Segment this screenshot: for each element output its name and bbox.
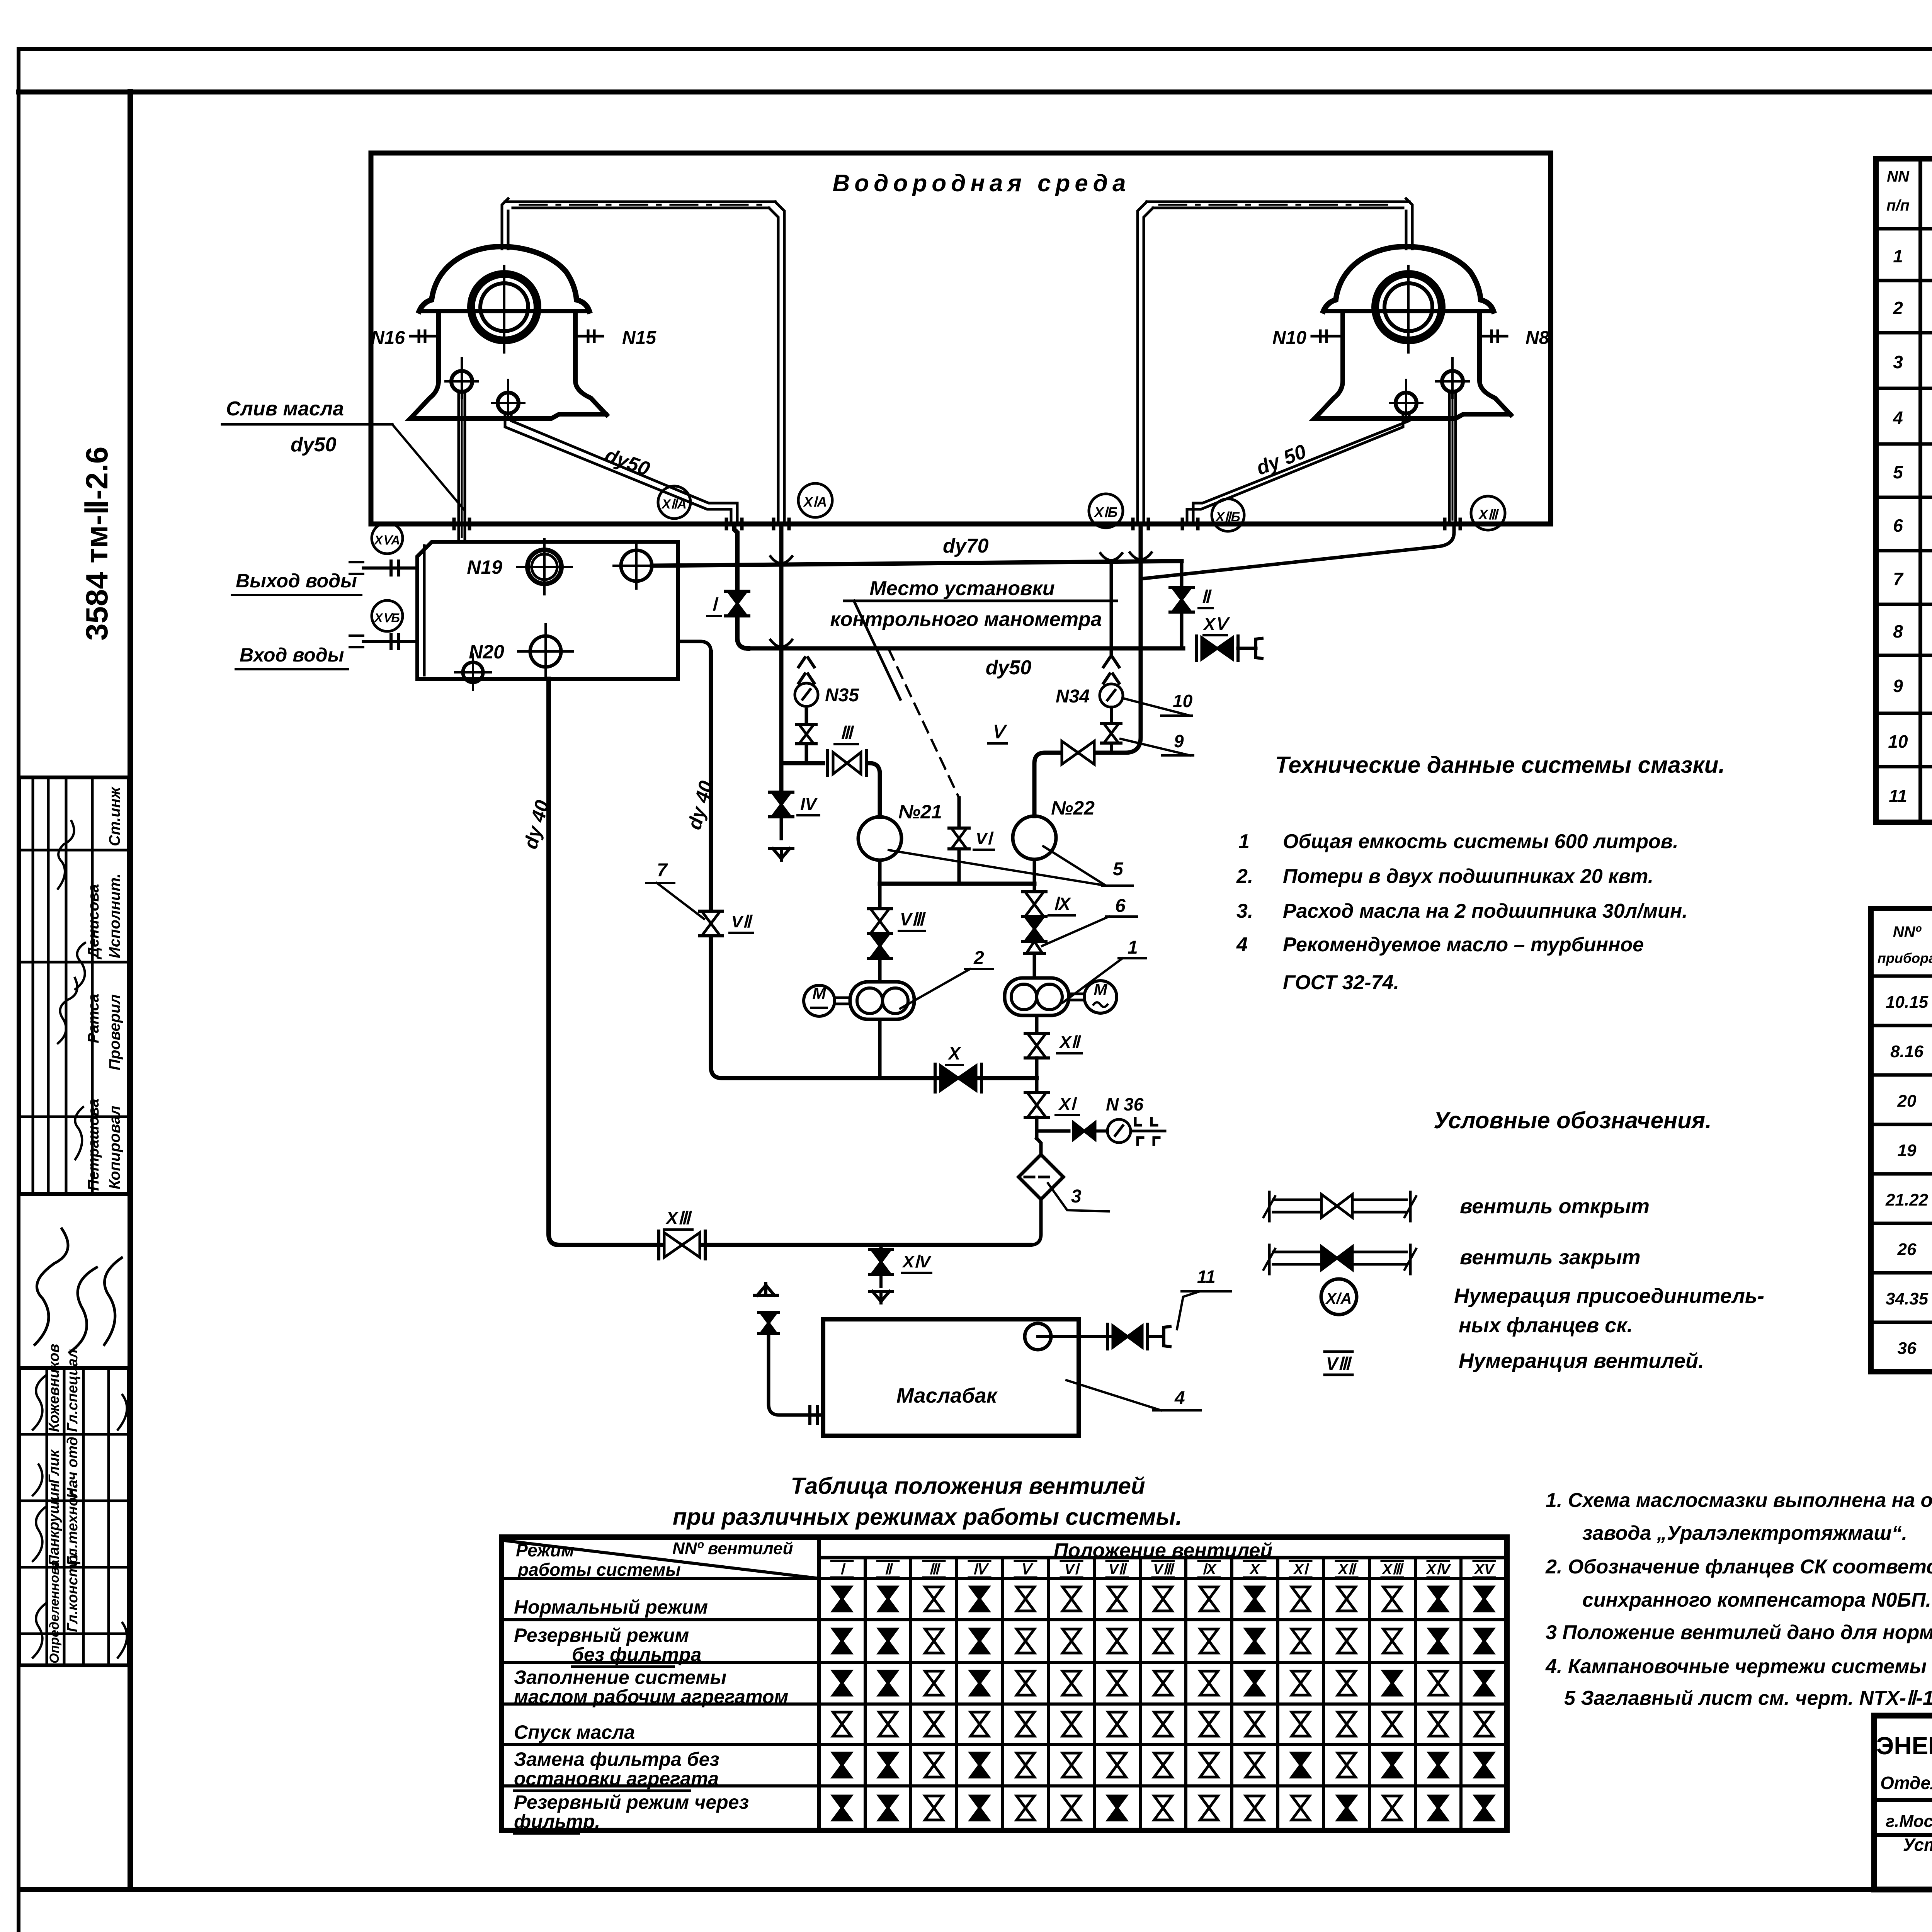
- pipe valve V line: [1034, 753, 1125, 816]
- oil tank: [823, 1319, 1079, 1436]
- leader to drain pipe: [392, 424, 464, 509]
- tee fillet dy70 at 2022: [770, 556, 792, 563]
- drawing frame bottom line: [23, 1887, 1932, 1892]
- small valve N36: [1073, 1122, 1095, 1139]
- legend closed valve symbol: [1268, 1245, 1271, 1274]
- svg-text:вентиль открыт: вентиль открыт: [1460, 1195, 1650, 1218]
- title block left rows: [1874, 1798, 1932, 1802]
- svg-text:11: 11: [1197, 1267, 1216, 1287]
- svg-text:Вход воды: Вход воды: [240, 644, 344, 666]
- svg-text:XⅢ: XⅢ: [1478, 507, 1499, 522]
- valve XI drop: [1035, 1078, 1039, 1094]
- drain fork XIV: [869, 1290, 893, 1293]
- tank outlet valve: [1113, 1326, 1142, 1347]
- svg-text:XⅠ: XⅠ: [1293, 1561, 1310, 1578]
- tee fillet dy70 at 2876: [1100, 553, 1122, 560]
- svg-text:1. Схема маслосмазки выполне: 1. Схема маслосмазки выполнена на основа…: [1546, 1489, 1932, 1512]
- svg-text:N10: N10: [1272, 328, 1306, 348]
- oil filter: [1019, 1155, 1063, 1199]
- svg-text:3: 3: [1893, 352, 1903, 372]
- svg-text:п/п: п/п: [1886, 197, 1910, 214]
- title block outer: [1874, 1716, 1932, 1889]
- svg-text:10: 10: [1888, 731, 1908, 752]
- svg-text:1: 1: [1893, 246, 1903, 266]
- svg-text:Нумерация присоединитель-: Нумерация присоединитель-: [1454, 1284, 1764, 1308]
- pipe bearing-R top: [1405, 211, 1408, 249]
- N36 branch: [1037, 1129, 1069, 1133]
- svg-text:9: 9: [1174, 731, 1184, 751]
- svg-text:N35: N35: [825, 685, 859, 706]
- svg-text:Резервный режим через: Резервный режим через: [514, 1791, 749, 1813]
- svg-text:Нумеранция вентилей.: Нумеранция вентилей.: [1459, 1349, 1704, 1372]
- flange label circle XIIA: [658, 486, 690, 519]
- cooler port N19: [527, 550, 561, 584]
- left bearing body: [410, 311, 608, 418]
- svg-text:прибора: прибора: [1878, 950, 1932, 966]
- right bearing oil port B: [1396, 393, 1417, 413]
- pipe bearing-R drain right: [1448, 392, 1451, 524]
- svg-text:фильтр.: фильтр.: [514, 1811, 600, 1832]
- svg-text:Проверил: Проверил: [106, 994, 123, 1070]
- svg-text:Место установки: Место установки: [869, 577, 1054, 600]
- svg-text:Кожевников: Кожевников: [46, 1344, 62, 1432]
- pipe bearing-L dy50 drain: [505, 413, 731, 524]
- svg-text:N8: N8: [1526, 328, 1549, 348]
- svg-text:NNº вентилей: NNº вентилей: [672, 1539, 793, 1558]
- svg-text:Определеннова: Определеннова: [47, 1560, 62, 1663]
- water inlet stub XVB: [363, 640, 417, 643]
- flange on enclosure line XIB: [1131, 519, 1135, 529]
- left bearing pedestal dome: [419, 247, 589, 311]
- svg-text:при различных режимах работ: при различных режимах работы системы.: [673, 1504, 1182, 1530]
- flange label circle XIII: [1471, 496, 1505, 530]
- valve XV: [1202, 638, 1233, 659]
- valve table row 5 symbols: [833, 1753, 851, 1777]
- svg-text:VⅢ: VⅢ: [1153, 1561, 1175, 1578]
- valve I: [728, 591, 747, 616]
- svg-text:Потери в двух подшипниках 2: Потери в двух подшипниках 20 квт.: [1283, 865, 1653, 888]
- svg-text:Режим: Режим: [516, 1540, 574, 1560]
- instruments table grid: [1871, 908, 1932, 1372]
- tee fillet dy70 at 2952: [1130, 553, 1151, 560]
- valve IX drop: [1033, 884, 1036, 892]
- svg-text:Копировал: Копировал: [106, 1105, 123, 1189]
- legend open valve symbol: [1268, 1192, 1271, 1221]
- flange stub N15: [575, 335, 603, 338]
- pipe dy70 main: [652, 561, 1182, 566]
- valve VIII pair: [871, 909, 889, 934]
- svg-text:36: 36: [1898, 1339, 1917, 1358]
- svg-text:5 Заглавный лист см. черт.: 5 Заглавный лист см. черт. NТХ-Ⅱ-1.: [1564, 1687, 1932, 1709]
- svg-text:8: 8: [1893, 621, 1903, 641]
- svg-text:4: 4: [1893, 408, 1903, 428]
- svg-text:VⅠ: VⅠ: [976, 829, 994, 848]
- flange on enclosure line drain-L: [452, 519, 456, 529]
- valve IV: [772, 792, 791, 817]
- valve VI stub: [957, 798, 961, 883]
- dashed leader to valve VI: [889, 649, 959, 798]
- svg-text:XⅡБ: XⅡБ: [1215, 510, 1240, 524]
- right bearing pedestal dome: [1323, 247, 1493, 311]
- left bearing cap split line: [419, 309, 589, 313]
- svg-text:Панкрушин: Панкрушин: [46, 1483, 62, 1566]
- svg-text:VⅡ: VⅡ: [731, 912, 753, 931]
- svg-text:работы системы: работы системы: [517, 1560, 681, 1580]
- svg-text:М: М: [813, 984, 827, 1002]
- flange stub N10: [1312, 335, 1342, 338]
- flange label circle XIIB: [1212, 499, 1244, 531]
- valve X: [940, 1066, 976, 1090]
- valve XIII: [664, 1233, 700, 1257]
- check valve item6: [1027, 941, 1042, 953]
- valve 9 below N34: [1110, 707, 1113, 753]
- valve XI: [1027, 1093, 1046, 1117]
- valve table header split: [817, 1537, 821, 1830]
- motor M1: [1084, 981, 1117, 1013]
- jet relay N21: [858, 817, 901, 860]
- cap plug C: [1256, 638, 1262, 658]
- leader 3: [1048, 1183, 1109, 1211]
- valve XII: [1027, 1033, 1046, 1058]
- svg-text:dy70: dy70: [943, 535, 989, 557]
- N34 chain from dy70: [1110, 563, 1113, 657]
- svg-text:4: 4: [1174, 1388, 1185, 1408]
- pipe VIII to pump2: [878, 958, 882, 982]
- svg-text:Заполнение системы: Заполнение системы: [514, 1667, 726, 1688]
- svg-text:7: 7: [657, 860, 668, 881]
- svg-text:6: 6: [1115, 896, 1126, 916]
- svg-text:N34: N34: [1056, 686, 1090, 707]
- flange on enclosure line dy50-R: [1181, 519, 1184, 529]
- svg-text:IV: IV: [800, 795, 818, 814]
- explication table grid: [1876, 159, 1932, 822]
- valve II tail: [1180, 612, 1184, 648]
- svg-text:Гл.специал.: Гл.специал.: [65, 1345, 81, 1432]
- svg-text:VⅢ: VⅢ: [1326, 1354, 1352, 1374]
- upper stamp table: [19, 777, 129, 1194]
- jet relay N21 feed: [781, 761, 823, 765]
- valve VIII drop: [878, 884, 882, 909]
- flange label circle XVB: [372, 600, 403, 631]
- tank fill pipe: [754, 1294, 777, 1297]
- valve IV tail: [780, 817, 783, 838]
- right bearing oil port A: [1442, 371, 1463, 392]
- tee fillet manifold at 2022: [770, 640, 792, 647]
- svg-text:dy50: dy50: [986, 656, 1032, 679]
- svg-text:2. Обозначение фланцев СК с: 2. Обозначение фланцев СК соответствует.…: [1545, 1556, 1932, 1578]
- svg-text:XⅡ: XⅡ: [1058, 1033, 1081, 1052]
- svg-text:ⅠX: ⅠX: [1202, 1561, 1217, 1578]
- flange on enclosure line XIA: [772, 519, 776, 529]
- svg-text:X/А: X/А: [1325, 1290, 1352, 1307]
- svg-text:N16: N16: [371, 328, 405, 348]
- svg-text:М: М: [1094, 980, 1108, 998]
- thermo symbol N34: [1104, 658, 1110, 667]
- svg-text:Слив масла: Слив масла: [226, 398, 344, 420]
- svg-text:Рекомендуемое масло – турбинн: Рекомендуемое масло – турбинное: [1283, 934, 1644, 956]
- pipe bearing-R dy50 drain: [1187, 413, 1403, 524]
- svg-text:XⅤБ: XⅤБ: [374, 611, 400, 625]
- svg-text:ГОСТ 32-74.: ГОСТ 32-74.: [1283, 971, 1399, 994]
- pipe to cap: [1238, 647, 1256, 650]
- valve table column lines: [864, 1558, 867, 1830]
- svg-text:XⅡА: XⅡА: [661, 497, 687, 512]
- valve table row 1 symbols: [833, 1587, 851, 1611]
- svg-text:9: 9: [1893, 676, 1903, 696]
- left bearing oil port B: [498, 393, 519, 413]
- svg-text:26: 26: [1897, 1240, 1917, 1259]
- pump unit 1 working: [1005, 978, 1069, 1015]
- hydrogen enclosure box: [371, 153, 1551, 524]
- lower stamp signatures: [33, 1376, 46, 1430]
- svg-text:X: X: [1249, 1561, 1260, 1578]
- flange stub N8: [1479, 335, 1507, 338]
- svg-text:Ратса: Ратса: [85, 994, 102, 1043]
- flange label circle XIB: [1089, 494, 1123, 528]
- water outlet stub XVA: [363, 566, 417, 570]
- right bearing cap split line: [1323, 309, 1493, 313]
- pipe XIB vertical down: [1125, 524, 1141, 753]
- svg-text:Маслабак: Маслабак: [896, 1384, 998, 1407]
- electric contact symbol N36: [1131, 1130, 1165, 1133]
- motor M2: [804, 985, 835, 1016]
- svg-text:N20: N20: [469, 641, 504, 663]
- valve VII: [702, 911, 720, 936]
- svg-text:XⅢ: XⅢ: [1381, 1561, 1404, 1578]
- valve XIV drop: [879, 1245, 883, 1250]
- flange stub N16: [410, 335, 439, 338]
- leader 6: [1042, 917, 1109, 946]
- svg-text:Отделение Дальних Передач: Отделение Дальних Передач: [1880, 1773, 1932, 1793]
- right bearing ring: [1375, 274, 1442, 340]
- pipe bearing-L drain to cooler: [457, 392, 460, 542]
- pipe XIII drain slope: [1141, 524, 1454, 579]
- pipe IX to pump1: [1033, 954, 1036, 978]
- svg-text:Таблица положения вентилей: Таблица положения вентилей: [791, 1473, 1145, 1499]
- svg-text:Водородная среда: Водородная среда: [833, 170, 1131, 197]
- valve IX pair: [1025, 892, 1044, 917]
- leader 1: [1063, 958, 1122, 1003]
- svg-text:Резервный режим: Резервный режим: [514, 1624, 689, 1646]
- cooler outlet stub to dy40: [678, 641, 711, 652]
- valve table numerals header line: [819, 1556, 1507, 1560]
- pipe XI to N36 node: [1035, 1117, 1039, 1131]
- svg-text:10.15: 10.15: [1886, 993, 1929, 1012]
- small valve under N35: [799, 724, 814, 744]
- svg-text:2.: 2.: [1236, 865, 1253, 888]
- valve I elbow: [737, 616, 748, 648]
- svg-text:маслом рабочим агрегатом: маслом рабочим агрегатом: [514, 1686, 788, 1708]
- svg-text:21.22: 21.22: [1885, 1190, 1929, 1209]
- tank valve line: [1038, 1335, 1113, 1338]
- leader 5: [889, 850, 1106, 886]
- svg-text:ных фланцев ск.: ных фланцев ск.: [1459, 1314, 1633, 1337]
- svg-text:без фильтра: без фильтра: [572, 1644, 701, 1665]
- tank top connection circle: [1025, 1323, 1051, 1350]
- svg-text:Ⅲ: Ⅲ: [840, 723, 854, 743]
- svg-text:XⅠБ: XⅠБ: [1094, 504, 1117, 520]
- valve II drop: [1180, 561, 1184, 587]
- svg-text:3584 тм-Ⅱ-2.6: 3584 тм-Ⅱ-2.6: [80, 447, 114, 641]
- svg-text:4. Кампановочные чертежи сис: 4. Кампановочные чертежи системы маслосм…: [1545, 1655, 1932, 1678]
- svg-text:Условные обозначения.: Условные обозначения.: [1434, 1107, 1712, 1133]
- N35 chain: [805, 709, 808, 763]
- svg-text:3: 3: [1071, 1186, 1082, 1207]
- relay connection line: [878, 860, 882, 884]
- valve table row 4 symbols: [833, 1712, 851, 1736]
- valve I drop: [734, 524, 737, 590]
- svg-text:1: 1: [1128, 937, 1138, 958]
- svg-text:Общая емкость системы 600 л: Общая емкость системы 600 литров.: [1283, 830, 1679, 853]
- svg-text:XV: XV: [1474, 1561, 1495, 1578]
- pump unit 2 reserve: [0, 981, 0, 982]
- gauge N35: [795, 683, 818, 706]
- svg-text:остановки агрегата: остановки агрегата: [514, 1768, 719, 1789]
- flange on enclosure line XIII: [1443, 519, 1447, 529]
- svg-text:6: 6: [1893, 515, 1903, 536]
- svg-text:dy50: dy50: [291, 434, 337, 456]
- svg-text:4: 4: [1236, 934, 1248, 956]
- valve XIV tail: [879, 1274, 883, 1287]
- leader 9: [1121, 739, 1190, 755]
- valve table diagonal: [502, 1540, 819, 1578]
- jet relay N22: [1013, 816, 1056, 859]
- valve III: [833, 752, 861, 774]
- svg-text:5: 5: [1893, 462, 1903, 482]
- legend flange circle: [1321, 1279, 1357, 1315]
- svg-text:34.35: 34.35: [1886, 1289, 1929, 1308]
- left bearing ring: [471, 274, 537, 340]
- pipe dy50 manifold: [746, 646, 1183, 651]
- svg-text:XⅡ: XⅡ: [1337, 1561, 1357, 1578]
- svg-text:Замена фильтра без: Замена фильтра без: [514, 1748, 719, 1770]
- pipe bearing-L top: [502, 199, 508, 249]
- gauge N34: [1100, 684, 1123, 707]
- svg-text:Ст.инж: Ст.инж: [106, 786, 123, 846]
- pipe XII to main: [1035, 1058, 1039, 1078]
- tank cap head: [1148, 1335, 1163, 1338]
- svg-text:7: 7: [1893, 569, 1904, 589]
- svg-text:VⅡ: VⅡ: [1109, 1561, 1127, 1578]
- valve table row 2 symbols: [833, 1629, 851, 1653]
- cooler oil outlet circle: [621, 550, 652, 581]
- svg-text:Расход масла на 2 подшипни: Расход масла на 2 подшипника 30л/мин.: [1283, 900, 1688, 922]
- svg-text:19: 19: [1898, 1141, 1917, 1160]
- leader 11: [1177, 1291, 1200, 1329]
- svg-text:X: X: [947, 1043, 961, 1063]
- svg-text:XⅠ: XⅠ: [1058, 1095, 1077, 1114]
- svg-text:Петрашова: Петрашова: [85, 1099, 102, 1191]
- svg-text:вентиль закрыт: вентиль закрыт: [1460, 1246, 1641, 1269]
- svg-text:Нормальный режим: Нормальный режим: [514, 1596, 708, 1618]
- svg-text:Установка синхронных: Установка синхронных: [1903, 1835, 1932, 1855]
- leader 7: [657, 883, 704, 919]
- svg-text:XⅠV: XⅠV: [901, 1252, 932, 1271]
- pipe N36 node to filter: [1035, 1131, 1039, 1138]
- valve IV drop: [779, 763, 784, 791]
- svg-text:8.16: 8.16: [1890, 1042, 1923, 1061]
- valve VI: [951, 828, 967, 849]
- leader 2: [900, 969, 970, 1009]
- oil cooler body: [417, 542, 678, 679]
- valve V: [1062, 741, 1094, 764]
- svg-text:VⅠ: VⅠ: [1065, 1561, 1080, 1578]
- svg-text:1: 1: [1238, 830, 1250, 853]
- flange label circle XVA: [372, 523, 403, 554]
- svg-text:Исполнит.: Исполнит.: [106, 873, 123, 958]
- left bearing oil port A: [451, 371, 472, 392]
- svg-text:ЭНЕРГОСЕТЬПРОЕКТ: ЭНЕРГОСЕТЬПРОЕКТ: [1876, 1732, 1932, 1760]
- svg-text:NNº: NNº: [1893, 923, 1922, 940]
- right bearing body: [1315, 311, 1512, 418]
- svg-text:синхранного компенсатора N0: синхранного компенсатора N0БП. 301. 298.: [1582, 1589, 1932, 1611]
- lower stamp table: [19, 1368, 129, 1665]
- svg-text:XⅠV: XⅠV: [1425, 1561, 1451, 1578]
- thermo symbol N35: [799, 658, 805, 667]
- vertical XIA pipe down: [779, 524, 784, 763]
- middle signatures: [35, 1229, 68, 1345]
- svg-text:Спуск масла: Спуск масла: [514, 1721, 635, 1743]
- svg-text:Технические данные системы: Технические данные системы смазки.: [1275, 752, 1725, 778]
- svg-text:N19: N19: [467, 556, 502, 578]
- svg-text:11: 11: [1889, 786, 1907, 806]
- cooler port N20: [530, 636, 561, 667]
- svg-text:XⅠА: XⅠА: [803, 494, 827, 510]
- pump1 discharge pipe: [1035, 1015, 1039, 1032]
- svg-text:10: 10: [1173, 691, 1193, 711]
- svg-text:Денисова: Денисова: [85, 884, 102, 959]
- svg-text:Выход воды: Выход воды: [236, 570, 357, 592]
- svg-text:2: 2: [1893, 298, 1903, 318]
- valve table row 3 symbols: [833, 1671, 851, 1695]
- leader 10: [1124, 699, 1190, 716]
- valve XIV: [872, 1250, 890, 1274]
- svg-text:№22: №22: [1051, 797, 1095, 819]
- upper stamp signatures: [58, 821, 74, 889]
- gauge N36: [1095, 1129, 1107, 1133]
- pipe III to N21: [869, 763, 880, 817]
- drain fork IV: [770, 847, 793, 850]
- valve II: [1172, 587, 1191, 612]
- svg-text:3 Положение вентилей дано: 3 Положение вентилей дано для нормальног…: [1546, 1621, 1932, 1644]
- svg-text:завода „Уралэлектротяжмаш“.: завода „Уралэлектротяжмаш“.: [1582, 1522, 1907, 1544]
- leader 4: [1066, 1380, 1161, 1410]
- valve table row 6 symbols: [833, 1796, 851, 1820]
- svg-text:Гл.констр.: Гл.констр.: [65, 1551, 81, 1632]
- cooler drain flange small: [463, 662, 483, 682]
- svg-text:XⅤА: XⅤА: [374, 533, 400, 547]
- svg-text:N 36: N 36: [1106, 1094, 1144, 1114]
- svg-text:ⅠX: ⅠX: [1053, 894, 1071, 914]
- main suction line: [711, 652, 1037, 1078]
- svg-text:г.Москва: г.Москва: [1886, 1812, 1932, 1831]
- svg-text:N15: N15: [622, 328, 656, 348]
- valve table outer: [502, 1537, 1507, 1830]
- flange on enclosure line dy50-L: [725, 519, 728, 529]
- svg-text:XⅤ: XⅤ: [1202, 615, 1230, 634]
- svg-text:NN: NN: [1887, 168, 1910, 185]
- svg-text:№21: №21: [898, 801, 942, 823]
- pipe filter to bottom loop: [1030, 1199, 1041, 1245]
- svg-text:контрольного манометра: контрольного манометра: [830, 608, 1102, 631]
- svg-text:VⅢ: VⅢ: [900, 909, 926, 929]
- valve table row lines: [502, 1577, 1507, 1580]
- pump2 suction pipe: [878, 1019, 882, 1078]
- tank fill flange: [808, 1406, 811, 1423]
- top margin band line: [19, 90, 1932, 95]
- svg-text:Глик: Глик: [46, 1449, 62, 1484]
- svg-text:2: 2: [973, 948, 984, 968]
